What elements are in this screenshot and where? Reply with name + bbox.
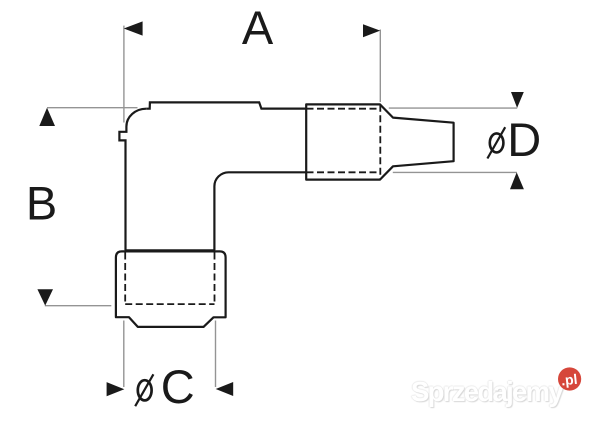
extension line B top bbox=[47, 107, 138, 109]
cap body top outline bbox=[146, 102, 306, 108]
arrow D top bbox=[511, 92, 524, 108]
terminal hidden outline dashed bottom bbox=[307, 171, 381, 173]
arrow B bottom bbox=[37, 289, 53, 305]
arrow C right bbox=[216, 382, 234, 396]
extension line A left bbox=[123, 26, 125, 123]
extension line D top bbox=[389, 107, 517, 109]
svg-text:D: D bbox=[507, 113, 541, 166]
diameter symbol for D bbox=[487, 127, 505, 158]
terminal hidden outline dashed right bbox=[379, 105, 381, 180]
extension line B bottom bbox=[45, 305, 112, 307]
arrow D bottom bbox=[510, 172, 524, 189]
arrow C left bbox=[107, 382, 125, 396]
cap tube bottom edge and inner elbow corner, right edge bbox=[214, 172, 306, 250]
extension line C left bbox=[123, 321, 125, 388]
arrow A left bbox=[124, 21, 143, 35]
diameter symbol for C bbox=[135, 374, 153, 406]
svg-text:C: C bbox=[161, 360, 195, 413]
arrow A right bbox=[363, 24, 380, 37]
boot junction line bbox=[125, 249, 216, 251]
terminal hidden outline dashed top bbox=[307, 108, 381, 110]
svg-text:A: A bbox=[242, 1, 274, 54]
svg-text:.pl: .pl bbox=[560, 371, 578, 389]
extension line D bottom bbox=[393, 171, 517, 173]
boot hidden outline dashed bottom bbox=[125, 303, 214, 305]
boot outline bbox=[116, 251, 226, 327]
boot hidden outline dashed left bbox=[124, 253, 126, 304]
arrow B top bbox=[39, 108, 55, 126]
cap elbow outer corner and left edge with notch bbox=[119, 109, 146, 251]
terminal section and nozzle outline bbox=[306, 104, 453, 179]
watermark text bbox=[411, 376, 586, 416]
watermark badge bbox=[546, 355, 594, 403]
boot hidden outline dashed right bbox=[214, 253, 216, 304]
svg-text:B: B bbox=[26, 177, 57, 230]
extension line A right bbox=[379, 30, 381, 103]
extension line C right bbox=[215, 321, 217, 388]
